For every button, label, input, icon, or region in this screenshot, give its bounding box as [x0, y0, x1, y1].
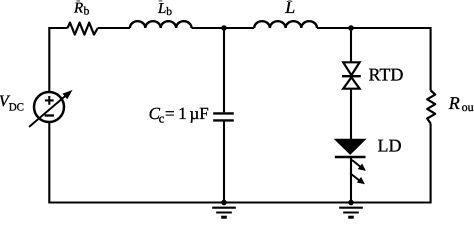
wire Cc branch upper — [223, 28, 225, 112]
svg-text:c: c — [159, 111, 165, 125]
wire left vertical below source — [48, 122, 50, 204]
capacitor C1 Cc bottom plate — [213, 119, 234, 121]
RTD D1 bottom triangle (points up) — [343, 77, 359, 88]
ground symbol right bottom thick bar — [348, 216, 353, 219]
LD emission arrow 1 head — [358, 164, 366, 171]
svg-text:R: R — [448, 93, 460, 113]
wire between Rb and Lb — [98, 27, 130, 29]
voltage source minus sign — [45, 114, 54, 116]
artifact gray mark above Lb — [159, 0, 163, 2]
svg-text:µF: µF — [190, 104, 209, 123]
artifact gray mark above Rb — [76, 0, 80, 2]
ground symbol right — [339, 208, 363, 218]
wire Lb to node A — [192, 27, 255, 29]
wire left vertical above source — [48, 27, 50, 92]
LD emission arrow 2 shaft — [350, 173, 360, 181]
inductor L2 L coil — [254, 21, 317, 28]
voltage source variable arrow — [29, 95, 66, 127]
wire bottom — [49, 201, 430, 203]
junction dot bottom of LD branch — [348, 200, 354, 206]
LD emission arrow 1 shaft — [352, 160, 361, 167]
voltage source arrowhead — [63, 90, 73, 99]
wire right vertical upper — [430, 27, 432, 90]
wire right vertical lower — [430, 124, 432, 204]
resistor R2 Rout zigzag — [427, 90, 435, 123]
junction dot bottom of Cc branch — [221, 200, 227, 206]
capacitor C1 Cc top plate — [213, 112, 234, 114]
svg-text:=: = — [165, 104, 175, 123]
svg-text:R: R — [73, 0, 83, 16]
svg-text:b: b — [84, 6, 90, 18]
ground symbol left bottom thick bar — [221, 216, 226, 219]
svg-text:LD: LD — [378, 136, 402, 156]
svg-text:1: 1 — [178, 104, 187, 123]
node B junction dot top of RTD branch — [348, 25, 354, 31]
RTD D1 middle bar — [342, 75, 361, 77]
voltage source plus sign — [45, 96, 54, 105]
svg-text:out: out — [462, 100, 474, 114]
resistor R1 Rb zigzag — [68, 23, 98, 35]
laser diode D2 LD filled triangle — [336, 140, 365, 154]
laser diode D2 LD cathode bar — [335, 156, 366, 158]
svg-text:DC: DC — [9, 102, 24, 114]
inductor L1 Lb coil — [130, 21, 192, 28]
node A junction dot top of Cc — [221, 25, 227, 31]
RTD D1 top triangle (points down) — [343, 62, 359, 75]
wire L to right corner — [317, 27, 431, 29]
wire RTD to LD — [350, 89, 352, 140]
LD emission arrow 2 head — [357, 177, 365, 184]
wire top left segment — [49, 27, 67, 29]
voltage source VDC circle — [34, 92, 64, 122]
artifact gray mark above L — [288, 0, 291, 2]
svg-text:L: L — [157, 1, 166, 17]
ground symbol left — [212, 208, 236, 218]
wire Cc branch lower — [223, 122, 225, 203]
svg-text:b: b — [166, 6, 172, 18]
wire RTD branch upper — [350, 28, 352, 62]
svg-text:RTD: RTD — [369, 65, 404, 85]
svg-text:L: L — [284, 0, 295, 17]
wire LD branch lower — [350, 157, 352, 203]
